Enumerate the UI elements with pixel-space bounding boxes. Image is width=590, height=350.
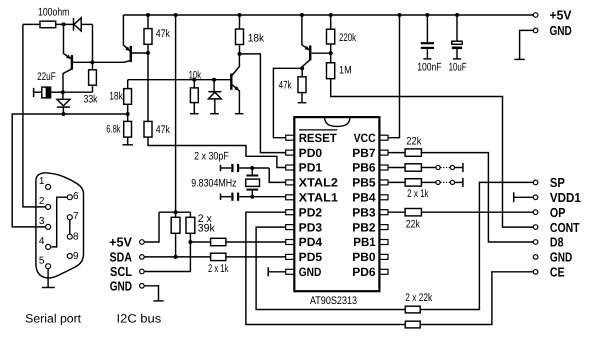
wire pin7 to pin8	[69, 220, 71, 234]
terminal CONT	[533, 220, 579, 235]
capacitor 10uF	[449, 15, 467, 74]
pin DB9 4	[39, 236, 51, 249]
pin 3 PD1	[286, 161, 323, 175]
wire D1 to base node	[92, 24, 94, 62]
wire +5V top rail	[123, 14, 533, 16]
transistor Q4	[302, 15, 331, 68]
resistor 47k second	[144, 121, 170, 137]
connector DB9 outline	[36, 173, 84, 278]
svg-text:VDD1: VDD1	[550, 190, 581, 205]
svg-text:AT90S2313: AT90S2313	[310, 295, 357, 307]
svg-text:RESET: RESET	[299, 131, 338, 145]
wire 47k column	[147, 53, 149, 122]
wire GND terminal to ground	[520, 30, 534, 59]
wire rail to 39k node	[175, 15, 177, 212]
svg-text:PD4: PD4	[299, 235, 323, 249]
svg-text:PB5: PB5	[352, 176, 376, 190]
capacitor 22uF	[34, 71, 63, 98]
wire base row to Q3	[128, 79, 232, 81]
label Serial port	[25, 311, 82, 325]
pin DB9 1	[39, 176, 51, 189]
wire PB7 to D8	[421, 153, 533, 242]
resistor 47k first	[144, 15, 170, 53]
svg-text:47k: 47k	[279, 80, 292, 92]
resistor 6.8k	[106, 121, 131, 144]
terminal SCL	[110, 264, 144, 279]
resistor 47k third	[279, 68, 306, 102]
svg-text:47k: 47k	[156, 124, 171, 136]
svg-text:SCL: SCL	[110, 264, 132, 279]
svg-text:3: 3	[39, 216, 45, 227]
ground 10uF	[453, 58, 461, 60]
capacitor 100nF	[417, 15, 442, 74]
pin 13 PB1	[353, 235, 388, 249]
svg-text:18k: 18k	[109, 90, 123, 102]
wire pin6 to pin4	[51, 197, 67, 247]
transistor Q3	[231, 54, 239, 114]
wire Q1 base row	[73, 61, 130, 63]
pin 10 GND	[286, 265, 322, 279]
svg-text:9.8304MHz: 9.8304MHz	[191, 177, 236, 189]
svg-text:XTAL1: XTAL1	[299, 191, 339, 205]
resistor 22k bottom second	[405, 321, 420, 328]
wire 100ohm row	[23, 23, 73, 25]
ground 100nF	[423, 58, 431, 60]
capacitor C1 30pF top	[194, 150, 269, 172]
diode D3	[208, 80, 221, 114]
svg-text:CONT: CONT	[550, 220, 580, 235]
svg-text:VCC: VCC	[354, 131, 376, 145]
svg-text:PB4: PB4	[352, 191, 376, 205]
ground DB9 pin5	[42, 287, 55, 289]
ground 6.8k	[123, 144, 133, 146]
svg-text:PB1: PB1	[353, 235, 376, 249]
svg-text:7: 7	[73, 211, 79, 222]
pin 12 PB0	[352, 250, 388, 264]
wire VDD1 stub	[514, 192, 534, 202]
pin 11 PD6	[352, 265, 388, 279]
svg-text:I2C bus: I2C bus	[117, 311, 162, 325]
wire 1M to CONT	[331, 79, 534, 227]
svg-text:2: 2	[39, 196, 45, 207]
resistor 39k second	[186, 212, 215, 242]
svg-text:GND: GND	[550, 23, 572, 38]
svg-text:22k: 22k	[406, 218, 421, 230]
pin 14 PB2	[352, 220, 388, 234]
wire XTAL1	[239, 196, 286, 198]
wire node to PD0	[240, 54, 286, 153]
wire VCC to rail	[388, 15, 399, 138]
resistor 220k	[327, 15, 357, 53]
wire Q4 collector to RESET	[273, 68, 302, 137]
svg-text:100nF: 100nF	[417, 62, 442, 74]
pin 1 RESET	[286, 130, 338, 145]
ground 47k third	[298, 102, 307, 104]
pin DB9 6	[67, 191, 79, 202]
svg-text:PD5: PD5	[299, 250, 323, 264]
op-amp U1 AT90S2313 body	[294, 117, 379, 307]
ground I2C GND	[153, 300, 163, 302]
ground GND terminal	[514, 58, 524, 60]
pin 5 XTAL2	[286, 176, 339, 190]
resistor 18k left	[109, 80, 131, 122]
svg-text:33k: 33k	[84, 94, 98, 106]
transistor Q2	[123, 15, 148, 62]
ground IC GND pin	[268, 267, 286, 276]
svg-text:GND: GND	[110, 278, 132, 293]
svg-text:10uF: 10uF	[449, 62, 467, 74]
svg-text:PB2: PB2	[352, 220, 376, 234]
pin 19 PB7	[352, 146, 388, 160]
svg-text:PD3: PD3	[299, 220, 323, 234]
pin DB9 7	[67, 211, 79, 222]
svg-text:1M: 1M	[339, 65, 352, 77]
svg-text:22uF: 22uF	[37, 71, 56, 83]
resistor 22k PB7	[388, 136, 422, 157]
terminal CE	[533, 265, 564, 280]
pin DB9 9	[67, 251, 79, 262]
svg-text:+5V: +5V	[109, 235, 132, 250]
terminal SDA	[110, 250, 145, 265]
pin 16 PB4	[352, 191, 388, 205]
terminal +5V	[533, 8, 572, 23]
terminal I2C +5V	[109, 235, 144, 250]
svg-text:Serial port: Serial port	[25, 311, 82, 325]
wire rail to RxD	[12, 114, 128, 227]
wire I2C +5V up	[144, 212, 159, 242]
svg-text:1: 1	[39, 176, 45, 187]
svg-text:2 x 1k: 2 x 1k	[407, 188, 429, 200]
wire 39k top bar	[159, 211, 190, 213]
terminal SP	[533, 175, 565, 190]
diode D2	[57, 92, 70, 114]
resistor 10k	[189, 69, 202, 113]
crystal X1 9.8304MHz	[191, 168, 259, 197]
pin 7 PD3	[286, 220, 323, 234]
pin DB9 2	[39, 196, 51, 209]
svg-text:GND: GND	[550, 250, 572, 265]
label I2C bus	[117, 311, 162, 325]
resistor 39k first	[171, 212, 180, 257]
svg-text:D8: D8	[550, 235, 564, 250]
svg-text:18k: 18k	[248, 32, 265, 44]
svg-text:+5V: +5V	[550, 8, 572, 23]
node junction dots	[61, 13, 459, 259]
svg-text:PD6: PD6	[352, 265, 376, 279]
wire 22k to SP	[420, 182, 533, 309]
svg-text:6: 6	[73, 191, 79, 202]
diode D1	[74, 18, 93, 31]
resistor 33k	[84, 62, 98, 105]
svg-text:PB6: PB6	[352, 161, 376, 175]
svg-text:5: 5	[39, 255, 45, 266]
jumper PB5	[436, 178, 463, 187]
svg-text:PD1: PD1	[299, 161, 323, 175]
pin 6 PD2	[286, 205, 323, 219]
pin 8 PD4	[286, 235, 323, 249]
wire TxD to DB9 pin2	[23, 24, 45, 207]
pin 17 PB5	[352, 176, 388, 190]
pin DB9 8	[67, 231, 79, 242]
svg-text:PD0: PD0	[299, 146, 323, 160]
svg-text:4: 4	[39, 236, 45, 247]
terminal I2C GND	[110, 278, 145, 293]
wire pin5 to ground	[47, 269, 49, 288]
wire 47k to PD1	[148, 137, 286, 167]
wire SDA row	[144, 256, 210, 258]
ground Q3 emitter	[235, 113, 244, 115]
resistor 22k PB3	[388, 209, 421, 231]
svg-text:CE: CE	[550, 265, 565, 280]
svg-text:47k: 47k	[156, 28, 171, 40]
wire I2C GND to ground	[144, 286, 158, 301]
pin 9 PD5	[286, 250, 323, 264]
pin 20 VCC	[354, 131, 388, 145]
terminal GND right	[533, 250, 572, 265]
terminal OP	[533, 205, 565, 220]
capacitor C2 30pF bottom	[221, 193, 239, 201]
pin 18 PB6	[352, 161, 388, 175]
svg-text:SP: SP	[550, 175, 565, 190]
wire PB3 to OP	[421, 211, 533, 213]
terminal D8	[533, 235, 563, 250]
svg-text:PB7: PB7	[352, 146, 376, 160]
terminal GND	[533, 23, 572, 38]
ground 10k	[190, 113, 199, 115]
svg-text:SDA: SDA	[110, 250, 133, 265]
svg-text:6.8k: 6.8k	[106, 124, 121, 136]
resistor 22k bottom first	[405, 292, 432, 313]
wire PD3 down	[256, 227, 405, 309]
pin 4 XTAL1	[286, 191, 339, 205]
pin DB9 5	[39, 255, 51, 268]
resistor 1k PB6	[388, 164, 436, 171]
wire 22k to CE	[420, 272, 533, 325]
resistor 1k SDA	[208, 253, 286, 275]
svg-text:8: 8	[73, 231, 79, 242]
wire 33k bottom row	[63, 91, 93, 93]
transistor Q1	[63, 24, 72, 92]
svg-text:2 x 22k: 2 x 22k	[405, 292, 432, 304]
svg-text:GND: GND	[299, 265, 322, 279]
svg-text:39k: 39k	[198, 222, 215, 234]
svg-text:PD2: PD2	[299, 205, 323, 219]
svg-text:100ohm: 100ohm	[38, 7, 69, 19]
svg-text:PB3: PB3	[352, 205, 376, 219]
wire XTAL2	[269, 168, 286, 182]
svg-text:2 x 1k: 2 x 1k	[208, 263, 229, 275]
svg-text:9: 9	[73, 251, 79, 262]
pin 2 PD0	[286, 146, 323, 160]
pin 15 PB3	[352, 205, 388, 219]
svg-text:220k: 220k	[339, 32, 356, 44]
resistor 1M	[327, 53, 352, 78]
svg-text:XTAL2: XTAL2	[299, 176, 339, 190]
resistor 100ohm	[38, 7, 69, 28]
resistor 18k second	[236, 15, 265, 54]
ground D3	[210, 113, 219, 115]
terminal VDD1	[533, 190, 581, 205]
svg-text:2 x 30pF: 2 x 30pF	[194, 150, 229, 162]
wire SCL row	[144, 242, 190, 272]
svg-text:22k: 22k	[406, 136, 422, 148]
svg-text:OP: OP	[550, 205, 566, 220]
resistor 1k PB5	[388, 179, 436, 200]
resistor 1k SCL	[190, 238, 285, 245]
wire PD2 down	[246, 212, 405, 324]
jumper PB6	[436, 163, 463, 172]
svg-text:PB0: PB0	[352, 250, 376, 264]
pin DB9 3	[39, 216, 51, 229]
